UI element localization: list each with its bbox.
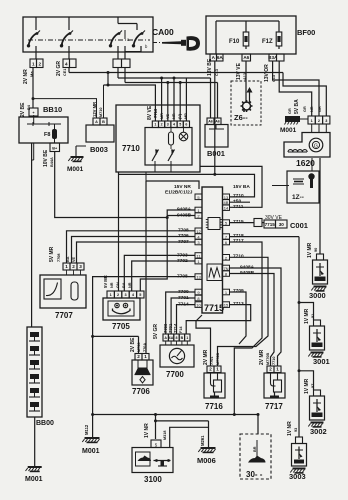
- svg-text:2: 2: [318, 119, 320, 123]
- svg-text:13V OR: 13V OR: [264, 64, 270, 82]
- svg-text:1V NR: 1V NR: [287, 421, 293, 436]
- svg-text:1: 1: [110, 293, 112, 297]
- svg-text:7717: 7717: [265, 402, 283, 411]
- svg-text:2: 2: [117, 293, 119, 297]
- svg-text:+50: +50: [233, 199, 241, 205]
- svg-text:7710: 7710: [272, 357, 276, 365]
- svg-text:6: 6: [185, 123, 187, 127]
- svg-text:1: 1: [225, 290, 228, 295]
- svg-text:B+: B+: [52, 147, 58, 151]
- svg-text:C13: C13: [215, 69, 219, 76]
- svg-text:2: 2: [225, 255, 228, 260]
- svg-text:10V BE: 10V BE: [43, 149, 49, 167]
- svg-text:770A: 770A: [143, 343, 147, 352]
- svg-text:3: 3: [197, 240, 200, 245]
- svg-text:BA: BA: [66, 256, 70, 262]
- svg-text:1: 1: [154, 123, 156, 127]
- svg-text:5: 5: [155, 442, 158, 447]
- svg-text:1: 1: [311, 119, 313, 123]
- svg-text:1V MR: 1V MR: [304, 378, 310, 394]
- svg-text:7700: 7700: [166, 370, 184, 379]
- svg-text:15V BA: 15V BA: [233, 184, 250, 190]
- svg-text:5: 5: [139, 293, 141, 297]
- svg-text:2: 2: [38, 62, 41, 67]
- svg-text:+: +: [32, 111, 35, 115]
- svg-text:3003: 3003: [289, 472, 306, 481]
- svg-text:A6: A6: [208, 120, 213, 124]
- svg-text:7716: 7716: [205, 402, 223, 411]
- svg-text:15V NR: 15V NR: [174, 184, 191, 190]
- svg-text:4: 4: [65, 62, 68, 67]
- svg-text:9408A: 9408A: [240, 264, 255, 270]
- svg-text:VE: VE: [166, 113, 170, 119]
- svg-text:7705: 7705: [112, 322, 130, 331]
- svg-text:BR: BR: [253, 446, 257, 452]
- svg-text:M001: M001: [280, 127, 297, 134]
- svg-text:3001: 3001: [313, 357, 330, 366]
- svg-text:NR: NR: [310, 106, 314, 112]
- svg-text:7710: 7710: [233, 254, 244, 260]
- svg-text:7715: 7715: [204, 303, 224, 313]
- svg-text:3: 3: [124, 293, 126, 297]
- svg-text:M001: M001: [82, 448, 100, 455]
- svg-text:MR: MR: [184, 113, 188, 119]
- svg-text:7709: 7709: [233, 288, 244, 294]
- svg-text:VE: VE: [72, 256, 76, 262]
- svg-text:F1Z: F1Z: [262, 39, 273, 45]
- svg-text:MR: MR: [160, 113, 164, 119]
- svg-text:1: 1: [186, 336, 188, 340]
- svg-text:9Z: 9Z: [311, 383, 315, 388]
- svg-text:2: 2: [197, 214, 200, 219]
- svg-text:13V BE: 13V BE: [207, 58, 213, 76]
- svg-text:BB10: BB10: [43, 105, 62, 114]
- svg-text:F10: F10: [229, 39, 240, 45]
- svg-text:NR: NR: [110, 282, 114, 288]
- svg-text:G: G: [314, 144, 318, 150]
- svg-text:2V BE: 2V BE: [20, 102, 26, 117]
- svg-text:93: 93: [294, 428, 298, 432]
- svg-text:E1/2B/C1/2J: E1/2B/C1/2J: [165, 190, 193, 196]
- svg-text:BF00: BF00: [297, 28, 315, 37]
- svg-text:1: 1: [144, 354, 147, 359]
- svg-text:12: 12: [196, 229, 201, 234]
- svg-text:10: 10: [196, 303, 201, 308]
- svg-text:30- -: 30- -: [246, 470, 263, 479]
- svg-text:1: 1: [197, 259, 200, 264]
- svg-text:C001: C001: [290, 221, 308, 230]
- svg-text:13V VE: 13V VE: [236, 62, 242, 80]
- svg-text:3: 3: [79, 264, 82, 269]
- svg-text:7710: 7710: [122, 144, 140, 153]
- svg-text:B4: B4: [27, 104, 31, 110]
- svg-text:7707: 7707: [55, 311, 73, 320]
- svg-text:2V BE: 2V BE: [130, 337, 136, 352]
- svg-text:2: 2: [209, 367, 212, 372]
- svg-text:M318: M318: [163, 431, 167, 441]
- svg-text:2V GR: 2V GR: [56, 61, 62, 76]
- svg-text:B003: B003: [90, 145, 108, 154]
- svg-text:7708: 7708: [57, 254, 61, 262]
- svg-text:A6: A6: [243, 55, 249, 60]
- svg-text:CA00: CA00: [152, 27, 174, 37]
- svg-text:30: 30: [279, 222, 285, 227]
- svg-text:M770B: M770B: [266, 353, 270, 365]
- svg-text:CE1: CE1: [63, 69, 67, 76]
- svg-text:5V MR: 5V MR: [103, 275, 108, 288]
- svg-text:7701: 7701: [210, 357, 214, 365]
- svg-text:1: 1: [32, 62, 35, 67]
- svg-text:1V MR: 1V MR: [304, 308, 310, 324]
- svg-text:4: 4: [173, 123, 175, 127]
- svg-text:B001: B001: [207, 149, 225, 158]
- svg-text:7710: 7710: [153, 108, 158, 118]
- svg-text:7715: 7715: [265, 222, 276, 227]
- svg-text:2V MR: 2V MR: [203, 349, 209, 365]
- svg-text:GR: GR: [288, 108, 292, 114]
- svg-text:5V GR: 5V GR: [153, 324, 159, 339]
- svg-text:3100: 3100: [144, 475, 162, 484]
- svg-text:9: 9: [197, 290, 200, 295]
- svg-text:M112: M112: [84, 424, 89, 435]
- svg-text:M006: M006: [197, 456, 216, 465]
- svg-text:9408B: 9408B: [240, 270, 255, 276]
- svg-text:(V): (V): [178, 113, 182, 119]
- svg-text:1V NR: 1V NR: [144, 423, 150, 438]
- svg-text:91: 91: [311, 314, 315, 318]
- svg-text:B: B: [102, 120, 105, 124]
- svg-text:7714: 7714: [173, 323, 178, 333]
- svg-text:M710: M710: [99, 108, 103, 118]
- svg-text:3000: 3000: [309, 291, 326, 300]
- svg-text:2: 2: [269, 367, 272, 372]
- svg-text:3: 3: [167, 123, 169, 127]
- svg-text:M261: M261: [200, 435, 205, 446]
- svg-text:M772B: M772B: [216, 353, 220, 365]
- svg-text:7715: 7715: [233, 219, 244, 225]
- svg-text:5: 5: [197, 195, 200, 200]
- svg-text:5: 5: [225, 221, 228, 226]
- svg-text:Z6--: Z6--: [234, 113, 248, 122]
- svg-text:BA: BA: [122, 282, 126, 288]
- svg-text:NR: NR: [172, 113, 176, 119]
- svg-text:A6: A6: [215, 120, 220, 124]
- svg-text:6A: 6A: [217, 55, 224, 60]
- svg-text:1V MR: 1V MR: [307, 242, 313, 258]
- svg-text:F14: F14: [179, 326, 183, 333]
- svg-text:8: 8: [176, 336, 178, 340]
- svg-text:5V BA: 5V BA: [294, 99, 300, 114]
- svg-text:6: 6: [225, 240, 228, 245]
- svg-text:C13: C13: [272, 75, 276, 82]
- svg-text:7717: 7717: [233, 238, 244, 244]
- svg-text:6A: 6A: [169, 336, 174, 340]
- svg-text:M708: M708: [137, 343, 141, 353]
- svg-text:GR: GR: [318, 106, 322, 112]
- svg-text:A: A: [95, 120, 98, 124]
- svg-text:b: b: [145, 44, 148, 49]
- svg-text:A: A: [164, 336, 167, 340]
- svg-text:3002: 3002: [310, 427, 327, 436]
- svg-text:12V MR: 12V MR: [92, 102, 97, 117]
- svg-text:5: 5: [179, 123, 181, 127]
- svg-text:7710: 7710: [233, 193, 244, 199]
- svg-text:7718: 7718: [233, 233, 244, 239]
- svg-text:15: 15: [224, 303, 229, 308]
- svg-text:2: 2: [137, 354, 140, 359]
- svg-text:B44A: B44A: [50, 157, 54, 167]
- svg-text:3: 3: [325, 119, 327, 123]
- svg-text:2: 2: [161, 123, 163, 127]
- svg-text:1: 1: [216, 367, 219, 372]
- svg-text:2V MR: 2V MR: [259, 349, 265, 365]
- svg-text:5V MR: 5V MR: [49, 246, 55, 262]
- svg-text:B: B: [181, 336, 184, 340]
- svg-text:1: 1: [65, 264, 68, 269]
- svg-text:1Z--: 1Z--: [292, 194, 304, 201]
- svg-text:13: 13: [196, 275, 201, 280]
- svg-text:1: 1: [276, 367, 279, 372]
- svg-text:GR: GR: [303, 106, 307, 112]
- svg-text:8: 8: [197, 296, 200, 301]
- svg-text:7706: 7706: [132, 387, 150, 396]
- svg-text:90: 90: [314, 248, 318, 252]
- svg-text:M001: M001: [67, 166, 84, 173]
- svg-text:M001: M001: [25, 476, 43, 483]
- svg-text:F8: F8: [44, 132, 50, 138]
- svg-text:BB00: BB00: [36, 420, 54, 427]
- svg-text:A13: A13: [243, 73, 247, 80]
- svg-text:2: 2: [72, 264, 75, 269]
- svg-text:Ma: Ma: [29, 71, 34, 77]
- svg-text:GN: GN: [116, 282, 120, 288]
- svg-text:8: 8: [225, 272, 228, 277]
- svg-text:11: 11: [196, 254, 201, 259]
- svg-text:4: 4: [132, 293, 135, 297]
- svg-text:a: a: [61, 42, 64, 47]
- svg-text:14: 14: [224, 206, 229, 211]
- svg-text:NR: NR: [128, 282, 132, 288]
